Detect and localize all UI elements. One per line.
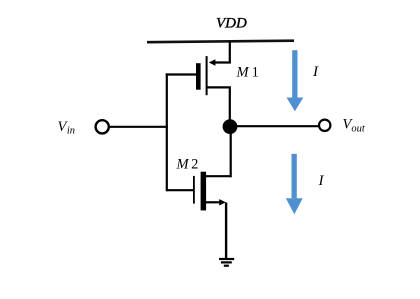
- M2 channel bar: [201, 172, 207, 211]
- transistor M2 (NMOS): [167, 172, 231, 211]
- transistor M1 (PMOS): [166, 56, 231, 95]
- VDD rail wire: [147, 41, 294, 43]
- wire M2 source to ground: [225, 203, 227, 259]
- current arrow I1 (blue): [287, 50, 304, 111]
- svg-text:M1: M1: [236, 65, 259, 81]
- M2 source lead with arrow: [206, 201, 221, 203]
- M2 gate plate: [193, 176, 195, 204]
- M1 source lead with arrow: [213, 61, 231, 63]
- M1 drain lead: [207, 86, 231, 88]
- M2 gate lead: [167, 189, 193, 191]
- wire VDD rail to M1 source: [229, 42, 231, 63]
- input terminal circle: [96, 120, 109, 133]
- wire output node to Vout terminal: [230, 125, 318, 127]
- current arrow I2 (blue): [286, 154, 303, 214]
- svg-text:I: I: [312, 64, 319, 80]
- M2 drain lead: [206, 175, 231, 177]
- M1 channel line: [206, 56, 208, 95]
- ground: [219, 259, 234, 266]
- svg-text:I: I: [318, 173, 325, 189]
- wire M1 drain down to output node: [229, 87, 231, 122]
- M1 gate lead: [166, 73, 196, 75]
- wire Vin to gate bus: [110, 126, 168, 128]
- svg-text:VDD: VDD: [216, 16, 247, 32]
- svg-text:M2: M2: [176, 157, 199, 173]
- node output junction dot: [223, 119, 238, 134]
- M1 gate bar: [196, 63, 201, 89]
- output terminal circle: [319, 120, 330, 131]
- wire output node down to M2 drain: [230, 127, 232, 177]
- wire gate bus vertical: [166, 73, 168, 191]
